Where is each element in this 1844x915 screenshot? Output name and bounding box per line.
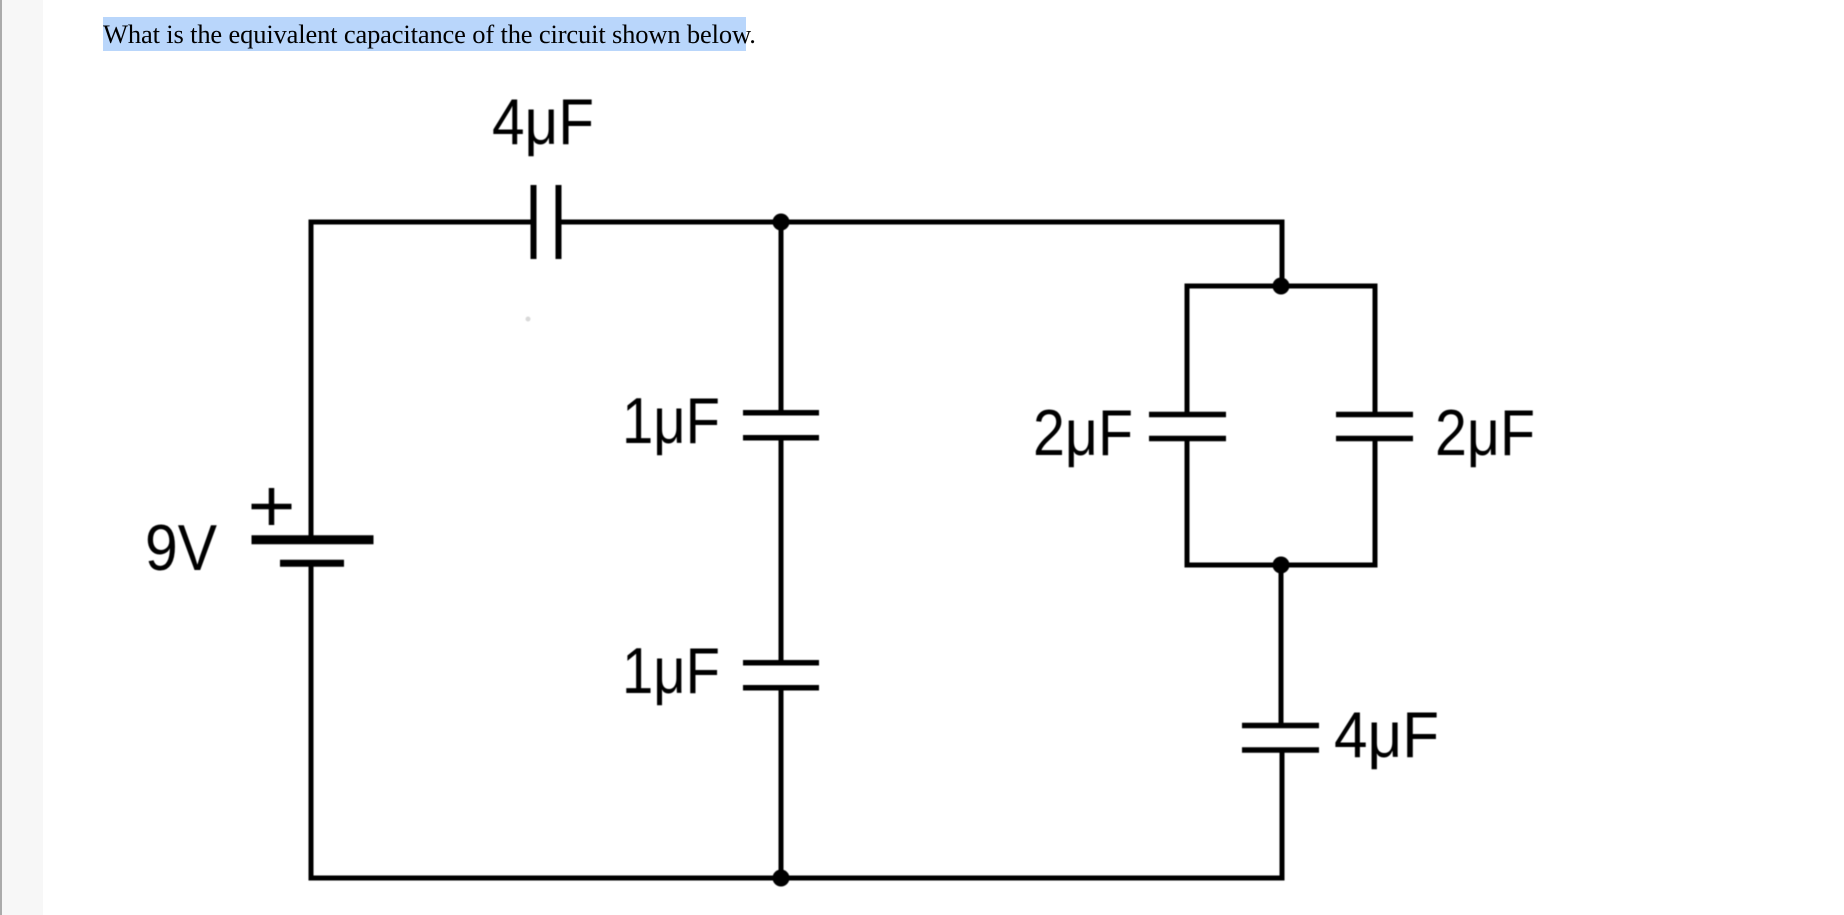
battery B1 9V long plate bbox=[252, 535, 374, 544]
capacitor C6 4uF bottom plates bbox=[1242, 723, 1319, 729]
wire: middle branch between 1uF caps bbox=[779, 438, 784, 663]
svg-text:9V: 9V bbox=[145, 511, 218, 584]
stray mark bbox=[526, 317, 531, 322]
battery B1 9V short plate bbox=[280, 560, 344, 567]
node D bottom junction bbox=[773, 870, 790, 887]
node A top junction bbox=[773, 214, 790, 231]
capacitor C4 2uF left plates bbox=[1149, 412, 1226, 418]
wire: left vertical + top-left horizontal bbox=[311, 222, 533, 540]
svg-text:1μF: 1μF bbox=[622, 384, 720, 457]
capacitor C3 1uF lower plates bbox=[743, 660, 819, 666]
wire: left vertical below battery + bottom horizontal + right vertical up to 4uF bottom plate bbox=[311, 563, 1282, 878]
question text bbox=[103, 19, 756, 50]
svg-text:1μF: 1μF bbox=[622, 634, 720, 707]
wire: from box bottom node down to 4uF cap bbox=[1279, 565, 1284, 727]
capacitor C5 2uF right plates bbox=[1336, 412, 1413, 418]
battery plus sign bbox=[252, 488, 292, 525]
wire: parallel box upper U (left top right) bbox=[1187, 286, 1375, 414]
node C box bottom junction bbox=[1273, 557, 1290, 574]
svg-text:4μF: 4μF bbox=[492, 85, 594, 158]
capacitor C2 1uF upper plates bbox=[743, 410, 819, 416]
page left gutter bbox=[0, 0, 43, 915]
svg-text:2μF: 2μF bbox=[1435, 396, 1535, 469]
wire: parallel box lower U bbox=[1187, 438, 1375, 565]
node B box top junction bbox=[1273, 278, 1290, 295]
svg-text:4μF: 4μF bbox=[1334, 698, 1439, 771]
svg-text:2μF: 2μF bbox=[1033, 396, 1133, 469]
capacitor C1 4uF top plates bbox=[531, 185, 537, 259]
wire: top horizontal right of 4uF + right vertical drop bbox=[559, 222, 1282, 286]
question highlight bbox=[103, 17, 746, 51]
wire: middle branch lower segment bbox=[779, 688, 784, 878]
wire: middle branch upper segment bbox=[779, 222, 784, 413]
